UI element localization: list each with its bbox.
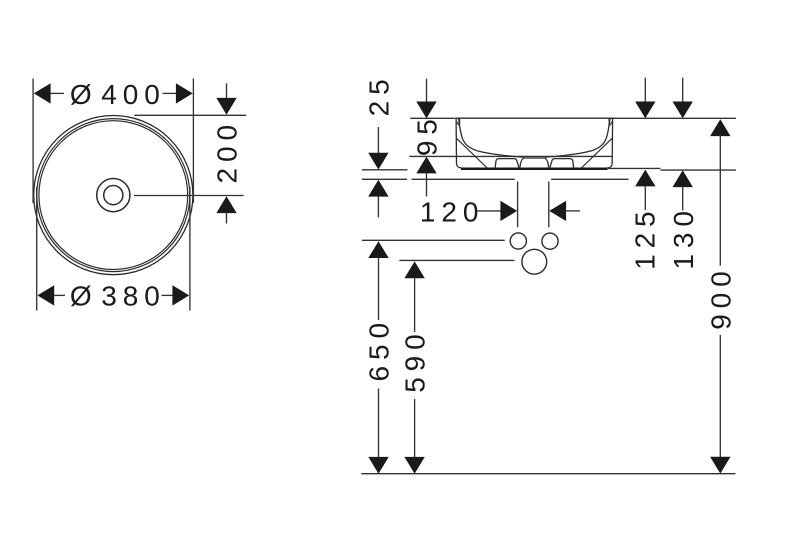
svg-text:Ø380: Ø380 <box>70 281 166 312</box>
basin top reference line right <box>612 117 736 119</box>
left interior bump <box>495 159 519 168</box>
drain outer circle <box>97 179 130 212</box>
svg-text:125: 125 <box>630 205 661 269</box>
reference line: drain centre <box>134 195 244 197</box>
dimension 120: tail right of text <box>478 210 502 212</box>
dimension 25: lower stub <box>377 196 379 217</box>
dimension 25: lower arrow (up) <box>368 180 388 197</box>
dimension 130: upper line <box>682 78 684 102</box>
extension line right (D380) <box>189 187 191 311</box>
dimension 650: upper line <box>378 257 380 320</box>
basin base bar <box>461 168 608 171</box>
countertop surface line (through basin) <box>409 155 612 157</box>
dimension D400: right arrow <box>176 83 193 103</box>
rim inner bead right <box>609 119 612 126</box>
extension line left (D400) <box>32 79 34 204</box>
inner bowl curve right <box>545 118 610 157</box>
120 extension line left <box>517 182 519 228</box>
basin rim circle 3 (inner rim) <box>39 121 188 270</box>
rim top line <box>455 117 614 119</box>
dimension 900: lower arrow (down) <box>710 457 730 474</box>
svg-text:650: 650 <box>364 317 395 381</box>
basin side view outline <box>455 118 614 170</box>
svg-text:95: 95 <box>412 113 443 156</box>
svg-text:590: 590 <box>400 328 431 392</box>
svg-text:25: 25 <box>364 73 395 116</box>
drain recess left side <box>520 158 524 167</box>
dimension D380: left arrow <box>37 285 54 305</box>
rim inner bead left <box>457 119 460 126</box>
tap hole reference line (650) <box>362 239 505 241</box>
dimension 900: lower line <box>719 335 721 458</box>
dimension 130: lower arrow (up) <box>673 170 693 187</box>
left outer wall <box>456 118 461 168</box>
svg-text:130: 130 <box>668 205 699 269</box>
right interior bump <box>550 159 574 168</box>
countertop lower edge line right <box>661 169 736 171</box>
dimension 200: lower arrow (up) <box>216 196 236 213</box>
countertop underside line (left of drain gap) <box>412 178 515 180</box>
dimension 125: lower arrow (up) <box>635 170 655 187</box>
tangent diagonal left <box>456 138 487 168</box>
25 dim upper reference line <box>362 169 408 171</box>
dimension 590: lower line <box>414 399 416 458</box>
floor line <box>361 473 735 475</box>
dimension D400: tails <box>50 92 64 94</box>
dimension 120: arrow pointing left <box>549 201 566 221</box>
svg-text:120: 120 <box>420 197 484 228</box>
drain recess right side <box>545 158 549 167</box>
dimension 95: upper arrow (down) <box>416 102 436 119</box>
extension line right (D400) <box>192 79 194 204</box>
basin outer rim circle (top view) <box>34 116 193 275</box>
dimension 25: line below text <box>377 127 379 153</box>
extension line left (D380) <box>36 187 38 311</box>
dimension 650: lower line <box>378 389 380 459</box>
basin top reference line left <box>410 117 455 119</box>
countertop underside line (right of drain gap) <box>551 178 629 180</box>
dimension 120: tail right arrow <box>566 210 580 212</box>
dimension 95: lower line <box>426 173 428 197</box>
dimension 125: upper line <box>644 78 646 102</box>
dimension 900: upper arrow (up) <box>710 119 730 136</box>
dimension 590: lower arrow (down) <box>404 457 424 474</box>
countertop surface line right of basin <box>608 167 661 169</box>
dimension 650: upper arrow (up) <box>368 241 388 258</box>
dimension 200: lower stub <box>226 213 228 224</box>
dimension 125: line to label <box>644 186 646 210</box>
dimension D380: tails <box>54 294 65 296</box>
dimension 25: upper arrow (down) <box>368 153 388 170</box>
tap hole circle large centre <box>522 249 547 274</box>
dimension 95: lower arrow (up) <box>416 157 436 174</box>
right outer wall <box>608 118 613 168</box>
dimension 590: upper arrow (up) <box>404 261 424 278</box>
inner bowl curve left <box>459 118 524 157</box>
drain recess top edge <box>524 157 545 159</box>
25 dim lower reference line <box>362 178 407 180</box>
tap hole reference line (590) <box>399 259 514 261</box>
dimension 95: upper line <box>426 79 428 102</box>
svg-text:200: 200 <box>212 119 243 183</box>
tap hole circle small left <box>510 233 526 249</box>
120 extension line right <box>548 182 550 228</box>
dimension 200: upper stub <box>226 83 228 98</box>
reference line: circle top tangent <box>134 114 246 116</box>
drain inner circle <box>104 186 123 205</box>
dimension 200: upper arrow (down) <box>216 98 236 115</box>
dimension 125: upper arrow (down) <box>635 102 655 119</box>
svg-text:900: 900 <box>705 265 736 329</box>
tap hole circle small right <box>542 233 558 249</box>
svg-text:Ø400: Ø400 <box>70 79 166 110</box>
dimension 130: line to label <box>682 187 684 211</box>
dimension D400: left arrow <box>34 83 51 103</box>
basin rim circle 2 <box>37 119 190 272</box>
dimension 130: upper arrow (down) <box>673 102 693 119</box>
dimension D380: right arrow <box>172 285 189 305</box>
dimension 650: lower arrow (down) <box>368 457 388 474</box>
dimension 590: upper line <box>414 278 416 332</box>
dimension 900: upper line <box>719 136 721 266</box>
dimension 120: arrow pointing right <box>500 201 517 221</box>
tangent diagonal right <box>581 138 612 168</box>
